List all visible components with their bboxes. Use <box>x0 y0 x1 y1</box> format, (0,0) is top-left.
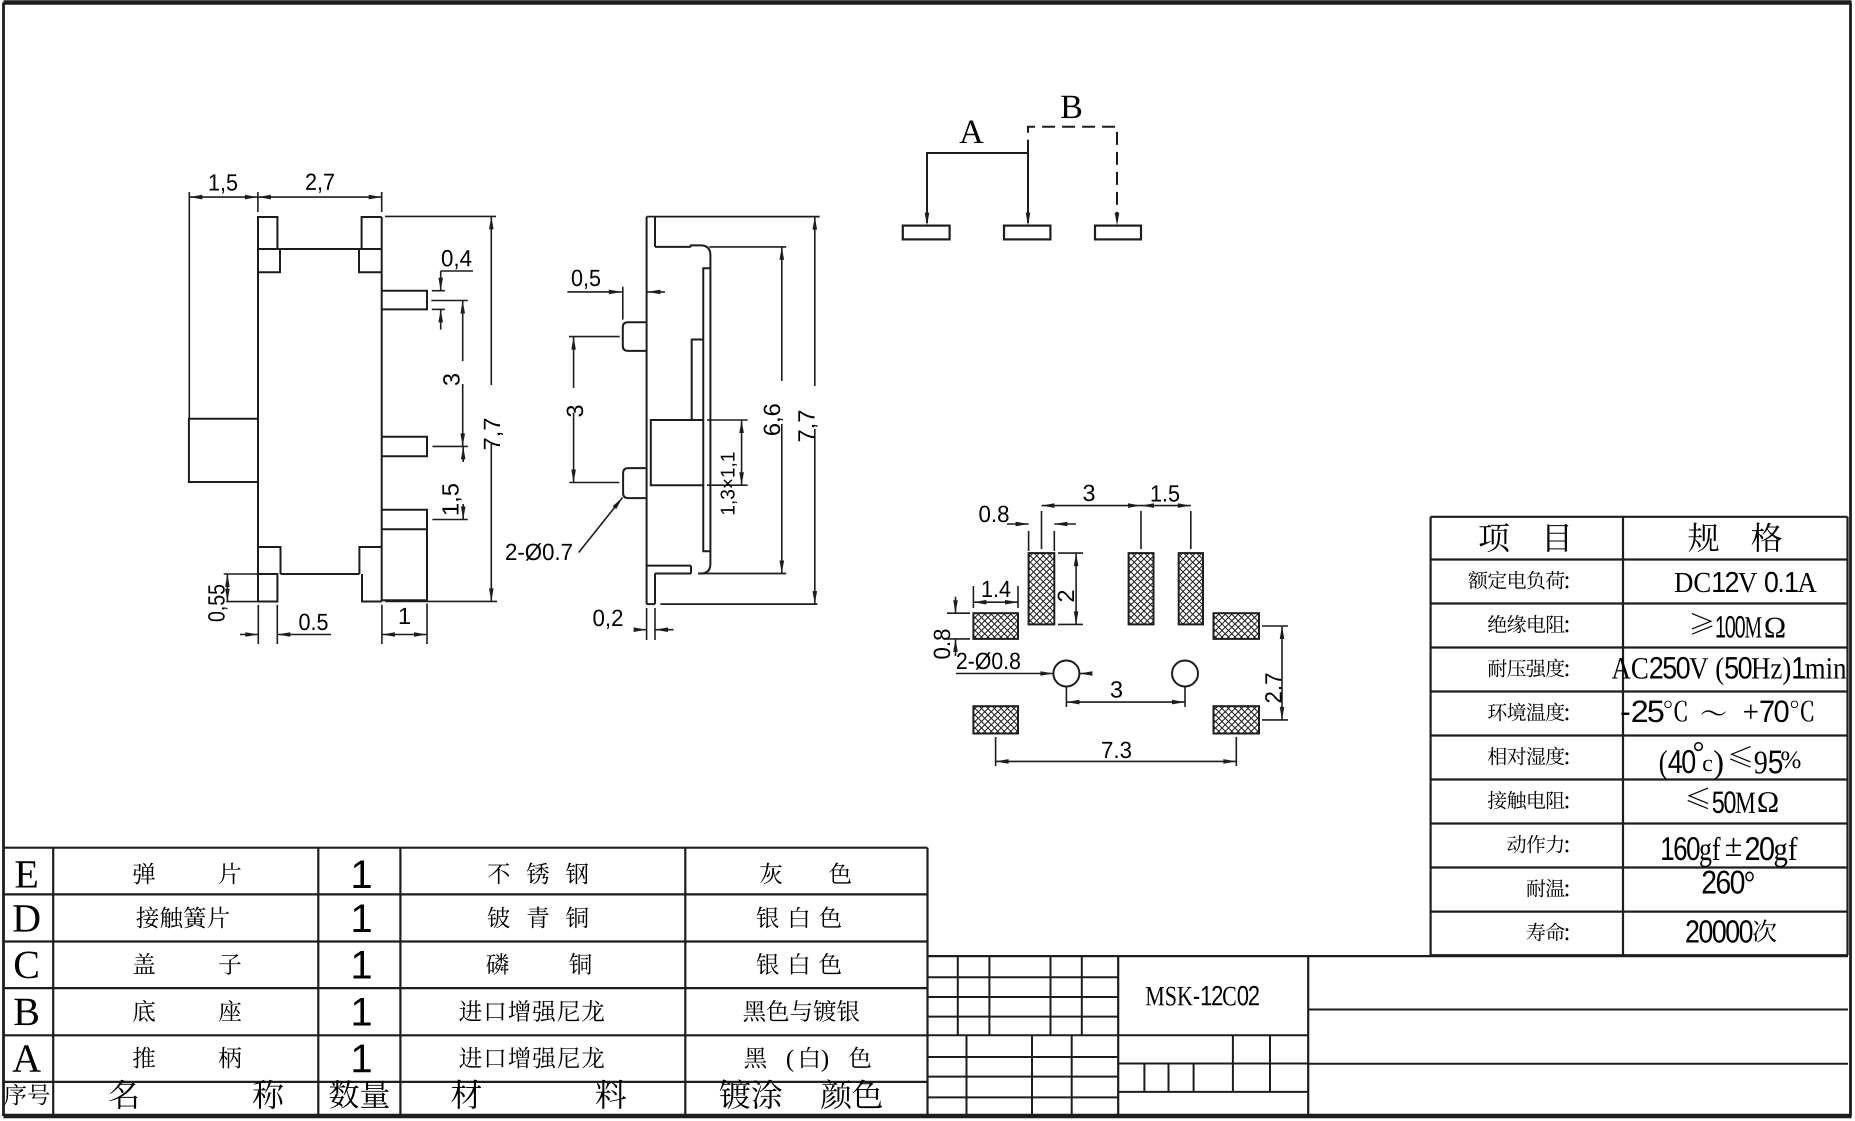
pcb dim 3 top: lines <box>1041 511 1043 549</box>
spec row labels <box>1468 571 1487 590</box>
title block part number MSK-12C02 <box>1146 986 1259 1006</box>
title block left grid <box>928 976 1119 978</box>
side view: cover outline <box>691 245 711 573</box>
side view: plate top tab inner edge <box>654 217 656 247</box>
schematic: node label B <box>1061 96 1081 118</box>
front view: top-right inner box <box>359 249 382 272</box>
dim 1,3x1,1: label <box>721 453 738 515</box>
dim 1: extension lines <box>381 605 383 644</box>
pcb dim 7.3: label <box>1102 742 1131 759</box>
spec value -25C to +70C <box>1621 700 1663 722</box>
dim 7,7 height: label <box>484 419 503 450</box>
pcb: pad P2 hatched <box>1129 553 1154 624</box>
dim 3 terminals: extension lines <box>431 300 468 302</box>
spec header 规格 <box>1689 523 1719 552</box>
spec value <=50M-ohm <box>1687 788 1708 810</box>
spec value AC250V (50Hz)1min <box>1612 657 1846 685</box>
schematic: node label A <box>960 121 984 143</box>
schematic: pad 2 <box>1004 226 1050 240</box>
front view: bottom-left inner box <box>258 547 281 574</box>
pcb dim 1.5 top: label <box>1152 485 1179 501</box>
pcb: pad P1 hatched <box>1029 553 1055 624</box>
schematic: pad 3 <box>1095 226 1141 240</box>
front view: bottom-right tab <box>362 574 382 602</box>
dim 0,55: dimension line <box>226 574 228 602</box>
spec value 160gf+-20gf <box>1662 837 1720 867</box>
dim 2,7 body: extension line <box>381 192 383 212</box>
dim 0,2: dimension line and arrows <box>638 629 647 631</box>
front view: terminal 3 lower box <box>382 529 427 600</box>
schematic: arrow to pad 1 <box>925 213 930 226</box>
dim 2,7 body: label <box>306 173 334 192</box>
title block top edge <box>928 955 1849 957</box>
dim 0,5 knob: label <box>572 270 600 289</box>
pcb dim 2.7: label <box>1265 674 1281 703</box>
side view: slider shaft line <box>692 340 704 421</box>
front view: bottom-right inner box <box>359 547 381 574</box>
pcb dim 0.8 top: label <box>979 506 1008 523</box>
dim 0,2: extension lines <box>646 608 648 640</box>
parts table footer row <box>4 1084 26 1106</box>
side view: upper side knob <box>623 322 647 351</box>
page border frame <box>4 0 1852 5</box>
spec value >=100M-ohm <box>1692 613 1713 635</box>
dim 1,5 handle: label <box>210 174 237 193</box>
dim 0.5: extension lines <box>257 605 259 644</box>
dim 1,5 terminals: label <box>442 484 461 514</box>
pcb dim 2.7: lines <box>1262 625 1288 627</box>
schematic: arrow to pad 2 <box>1026 213 1031 226</box>
dim 1,5 terminals: extension line <box>432 519 467 521</box>
pcb: hole circle 2 <box>1172 661 1198 687</box>
dim 0,2: label <box>593 610 622 629</box>
front view: body left edge <box>257 217 259 602</box>
pcb dim 0.8 left: lines <box>947 612 970 614</box>
dim 1,3x1,1: extension lines <box>707 419 748 421</box>
dim 3 knobs: dimension line <box>573 337 575 388</box>
dim 0,5 knob: dimension line and arrows <box>567 291 621 293</box>
title block middle grid <box>1118 1034 1308 1036</box>
dim 0,4 terminal: label <box>442 250 471 269</box>
front view: handle knob <box>189 419 258 482</box>
dim 1: label <box>400 608 410 624</box>
label 2-O0.7: text <box>506 543 572 560</box>
pcb dim 2: label <box>1058 591 1074 602</box>
spec value DC12V 0.1A <box>1675 572 1817 593</box>
parts table rows <box>16 861 37 887</box>
pcb dim 3 bottom: lines <box>1065 687 1067 707</box>
spec header 项目 <box>1479 523 1509 552</box>
pcb dim 0.8 top: extension and arrows <box>1028 531 1030 551</box>
dim 0,55: label <box>208 585 227 621</box>
dim 3 terminals: dimension line <box>462 301 464 362</box>
dim 0,55: extension lines <box>224 573 259 575</box>
dim 6,6: label <box>764 404 783 435</box>
dim 7,7 side: dimension line <box>814 217 816 386</box>
front view: top face line <box>277 248 361 250</box>
side view: top step line <box>655 246 691 248</box>
dim 3 knobs: label <box>567 405 584 416</box>
front view: top-left inner box <box>258 249 280 272</box>
dim 0,5 knob: extension line <box>622 287 624 320</box>
dim 7,7 side: label <box>798 411 817 442</box>
dim 6,6: dimension line <box>781 247 783 381</box>
front view: terminal 1 <box>382 291 427 310</box>
pcb dim 3 top: label <box>1083 485 1094 502</box>
pcb: pad P3 hatched <box>1179 553 1203 624</box>
front view: body right edge <box>381 217 383 602</box>
title block right section lines <box>1308 1009 1848 1011</box>
pcb dim 1.4: lines <box>972 586 974 608</box>
side view: cover bottom and 6,6 extension line <box>701 573 786 575</box>
dim 2,7 body: dimension line <box>258 196 382 198</box>
front view: top-right mounting tab <box>362 217 382 249</box>
pcb label 2-O0.8: leader <box>956 673 1053 675</box>
dim 1,5 handle: extension lines <box>188 192 190 419</box>
side view: slider knob box <box>651 420 703 485</box>
side view: lower side knob <box>623 468 647 498</box>
side view: bottom 7,7 extension line <box>660 603 817 605</box>
dim 0.5: label <box>299 614 327 631</box>
side view: plate bottom cap <box>647 603 655 605</box>
pcb dim 1.4: label <box>983 581 1011 597</box>
spec value 260deg <box>1703 870 1754 893</box>
dim 1,3x1,1: dimension line <box>741 420 743 485</box>
schematic: pad 1 <box>903 226 950 240</box>
parts table grid <box>4 847 928 849</box>
dim 3 terminals: label <box>443 374 460 385</box>
side view: base plate left edge <box>646 217 648 604</box>
pcb: left middle pad hatched <box>973 613 1018 639</box>
spec value (40C)<=95% <box>1660 750 1695 780</box>
title block lower-left grid <box>928 1056 1119 1058</box>
pcb dim 3 bottom: label <box>1111 681 1122 698</box>
dim 0.5: dimension line with outside arrows <box>240 634 258 636</box>
dim 1,5 handle: dimension line <box>189 196 258 198</box>
spec value 20000 cycles <box>1686 920 1752 943</box>
side view: plate bottom tab inner edge <box>654 574 656 605</box>
pcb: bottom right pad hatched <box>1214 706 1260 733</box>
front view: bottom face line <box>281 573 360 575</box>
front view: top-left mounting tab <box>258 217 277 249</box>
schematic: wire B dashed <box>1028 127 1117 221</box>
pcb label 2-O0.8: text <box>957 652 1020 669</box>
dim 7,7 height: extension lines <box>385 215 496 217</box>
side view: bottom step lines <box>647 565 691 567</box>
side view: inner channel line <box>703 268 710 551</box>
dim 6,6: extension line top <box>709 246 786 248</box>
pcb: bottom left pad hatched <box>973 706 1018 733</box>
pcb dim 2: lines <box>1058 552 1083 554</box>
pcb: right middle pad hatched <box>1214 613 1260 639</box>
dim 1: dimension line <box>382 634 427 636</box>
spec table grid <box>1431 516 1848 518</box>
schematic: arrow to pad 3 <box>1115 213 1120 226</box>
pcb: hole circle 1 <box>1053 661 1079 687</box>
label 2-O0.7: leader with arrow <box>579 498 623 553</box>
pcb dim 0.8 left: label <box>934 629 951 658</box>
front view: terminal 3 <box>382 510 427 530</box>
front view: bottom-left tab <box>258 574 277 602</box>
side view: top edge and 7,7 extension line <box>647 216 820 218</box>
dim 0,4 terminal: leader and arrows <box>441 270 473 272</box>
dim 3 knobs: extension lines <box>569 336 620 338</box>
dim 7,7 height: dimension line <box>490 216 492 385</box>
title block vertical edges <box>1117 956 1119 1114</box>
schematic: wire A solid <box>927 153 1028 223</box>
pcb dim 1.5 top: lines <box>1190 511 1192 549</box>
dim 1,5 terminals: dimension line <box>462 446 464 462</box>
front view: terminal 2 <box>382 437 427 457</box>
pcb dim 7.3: lines <box>995 737 997 766</box>
